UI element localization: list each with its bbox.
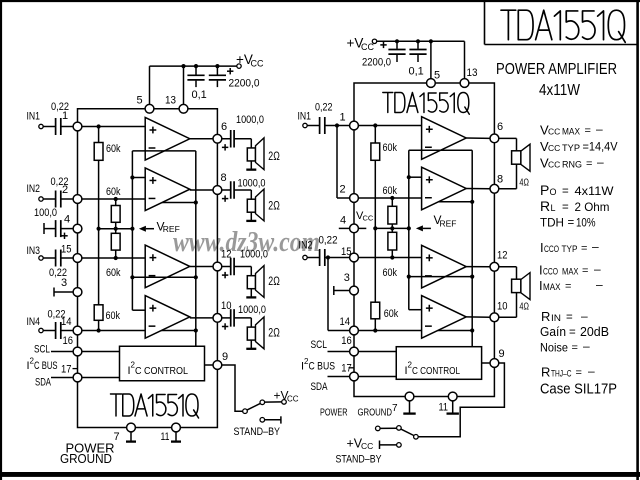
- svg-text:1000,0: 1000,0: [240, 248, 268, 260]
- svg-text:1: 1: [340, 112, 346, 124]
- svg-text:STAND–BY: STAND–BY: [336, 454, 383, 466]
- svg-text:IN2: IN2: [27, 183, 41, 195]
- svg-text:5: 5: [137, 95, 143, 107]
- svg-text:REF: REF: [440, 219, 457, 229]
- svg-text:THJ–C: THJ–C: [551, 369, 572, 379]
- svg-text:2Ω: 2Ω: [268, 201, 280, 213]
- svg-text:CC: CC: [251, 59, 264, 69]
- svg-text:=14,4V: =14,4V: [583, 142, 618, 154]
- svg-text:POWER AMPLIFIER: POWER AMPLIFIER: [496, 61, 617, 78]
- svg-text:9: 9: [222, 351, 228, 363]
- svg-text:16: 16: [341, 335, 352, 347]
- svg-text:CCO: CCO: [543, 267, 558, 277]
- svg-text:2Ω: 2Ω: [268, 328, 280, 340]
- svg-text:Noise: Noise: [540, 341, 568, 355]
- svg-text:CC: CC: [361, 441, 373, 451]
- svg-text:GROUND: GROUND: [358, 407, 393, 419]
- svg-text:R: R: [541, 365, 550, 380]
- svg-text:13: 13: [165, 95, 176, 107]
- svg-text:2Ω: 2Ω: [268, 276, 280, 288]
- svg-text:8: 8: [497, 174, 503, 186]
- svg-text:=: =: [586, 158, 592, 170]
- svg-text:=: =: [566, 312, 573, 324]
- svg-text:4x11W: 4x11W: [575, 184, 615, 198]
- svg-text:–: –: [581, 309, 588, 323]
- svg-text:=: =: [576, 367, 582, 379]
- svg-text:2200,0: 2200,0: [362, 57, 391, 69]
- svg-text:R: R: [540, 198, 550, 214]
- svg-text:IN2: IN2: [299, 240, 313, 252]
- svg-text:0,22: 0,22: [315, 102, 333, 114]
- svg-text:60k: 60k: [106, 310, 121, 322]
- svg-text:CC: CC: [287, 395, 299, 404]
- svg-text:2Ω: 2Ω: [268, 151, 280, 163]
- svg-text:O: O: [550, 187, 557, 197]
- svg-text:17: 17: [61, 364, 72, 376]
- svg-text:0,22: 0,22: [51, 101, 69, 113]
- svg-text:0,22: 0,22: [319, 235, 338, 247]
- svg-text:3: 3: [61, 277, 67, 289]
- svg-text:CC: CC: [548, 127, 560, 137]
- svg-text:MAX: MAX: [562, 267, 579, 278]
- svg-text:P: P: [540, 182, 549, 198]
- svg-text:16: 16: [63, 335, 74, 347]
- svg-text:GROUND: GROUND: [60, 451, 112, 466]
- svg-text:C CONTROL: C CONTROL: [135, 365, 188, 377]
- svg-text:MAX: MAX: [543, 282, 561, 293]
- svg-text:15: 15: [61, 244, 72, 256]
- svg-text:SCL: SCL: [311, 339, 328, 351]
- svg-text:IN1: IN1: [298, 111, 312, 123]
- svg-text:=: =: [582, 265, 588, 277]
- svg-text:2 Ohm: 2 Ohm: [575, 200, 610, 214]
- svg-text:–: –: [597, 155, 604, 169]
- svg-text:IN4: IN4: [27, 316, 41, 328]
- svg-text:=: =: [562, 202, 569, 214]
- svg-text:C BUS: C BUS: [34, 360, 58, 372]
- svg-text:IN: IN: [551, 313, 561, 323]
- svg-text:R: R: [541, 309, 550, 324]
- svg-text:C CONTROL: C CONTROL: [412, 365, 460, 377]
- svg-text:11: 11: [161, 431, 170, 443]
- svg-text:L: L: [551, 203, 556, 213]
- svg-text:3: 3: [344, 272, 350, 284]
- svg-text:–: –: [596, 278, 603, 292]
- svg-text:IN3: IN3: [27, 245, 41, 257]
- svg-text:10: 10: [497, 301, 508, 313]
- svg-text:CC: CC: [548, 160, 560, 170]
- svg-text:CC: CC: [361, 42, 374, 52]
- svg-text:17: 17: [341, 363, 352, 375]
- svg-text:TYP: TYP: [562, 143, 580, 154]
- svg-text:–: –: [596, 122, 603, 136]
- svg-text:60k: 60k: [383, 267, 398, 279]
- svg-text:=: =: [562, 186, 569, 198]
- svg-text:1000,0: 1000,0: [238, 304, 266, 316]
- svg-text:=: =: [581, 243, 587, 255]
- svg-text:=: =: [585, 125, 591, 137]
- svg-text:SDA: SDA: [35, 377, 51, 389]
- svg-text:0,1: 0,1: [409, 66, 424, 78]
- svg-text:13: 13: [467, 67, 478, 79]
- svg-text:CCO: CCO: [544, 244, 559, 254]
- svg-text:0,1: 0,1: [192, 89, 207, 101]
- svg-text:14: 14: [340, 316, 351, 328]
- svg-text:60k: 60k: [106, 186, 121, 198]
- svg-text:IN1: IN1: [27, 111, 41, 123]
- svg-text:20dB: 20dB: [580, 325, 609, 339]
- svg-text:7: 7: [392, 403, 398, 414]
- svg-text:60k: 60k: [383, 142, 398, 154]
- svg-text:–: –: [588, 364, 595, 378]
- svg-text:60k: 60k: [383, 185, 398, 197]
- svg-text:4Ω: 4Ω: [519, 177, 529, 189]
- svg-text:100,0: 100,0: [34, 207, 57, 219]
- svg-text:TDH: TDH: [540, 216, 564, 230]
- svg-text:Case SIL17P: Case SIL17P: [540, 381, 617, 398]
- svg-text:C BUS: C BUS: [309, 361, 336, 373]
- svg-text:CC: CC: [363, 214, 374, 223]
- svg-text:8: 8: [221, 172, 227, 184]
- svg-text:SCL: SCL: [34, 344, 50, 356]
- svg-text:Gaín: Gaín: [540, 325, 566, 339]
- svg-text:–: –: [594, 262, 601, 276]
- svg-text:6: 6: [221, 121, 227, 133]
- svg-text:POWER: POWER: [320, 407, 348, 419]
- svg-text:4: 4: [340, 215, 346, 227]
- svg-text:4Ω: 4Ω: [519, 301, 529, 313]
- svg-text:2: 2: [340, 184, 346, 196]
- svg-text:60k: 60k: [384, 308, 399, 320]
- svg-text:0,22: 0,22: [48, 309, 66, 321]
- svg-text:REF: REF: [163, 224, 180, 234]
- svg-text:60k: 60k: [106, 143, 121, 155]
- svg-text:4x11W: 4x11W: [539, 82, 581, 99]
- svg-text:12: 12: [497, 250, 508, 262]
- svg-text:STAND–BY: STAND–BY: [234, 426, 281, 438]
- svg-text:TYP: TYP: [562, 244, 578, 255]
- svg-text:SDA: SDA: [311, 381, 328, 393]
- svg-text:60k: 60k: [106, 267, 121, 279]
- svg-text:–: –: [583, 339, 590, 353]
- svg-text:1000,0: 1000,0: [238, 178, 266, 190]
- svg-text:=: =: [565, 281, 571, 293]
- svg-text:RNG: RNG: [562, 160, 582, 171]
- svg-text:=: =: [572, 342, 578, 354]
- svg-text:1000,0: 1000,0: [236, 114, 264, 126]
- svg-text:10%: 10%: [576, 216, 596, 230]
- svg-text:6: 6: [497, 121, 503, 133]
- svg-text:=: =: [568, 217, 575, 229]
- svg-text:=: =: [569, 327, 576, 339]
- svg-text:5: 5: [434, 70, 440, 82]
- svg-text:9: 9: [499, 348, 505, 360]
- svg-text:–: –: [592, 240, 599, 254]
- svg-text:0,22: 0,22: [51, 176, 69, 188]
- svg-text:CC: CC: [548, 143, 560, 153]
- svg-text:MAX: MAX: [562, 127, 581, 138]
- svg-text:11: 11: [439, 402, 449, 414]
- svg-text:4: 4: [64, 214, 70, 226]
- svg-text:2200,0: 2200,0: [229, 78, 260, 90]
